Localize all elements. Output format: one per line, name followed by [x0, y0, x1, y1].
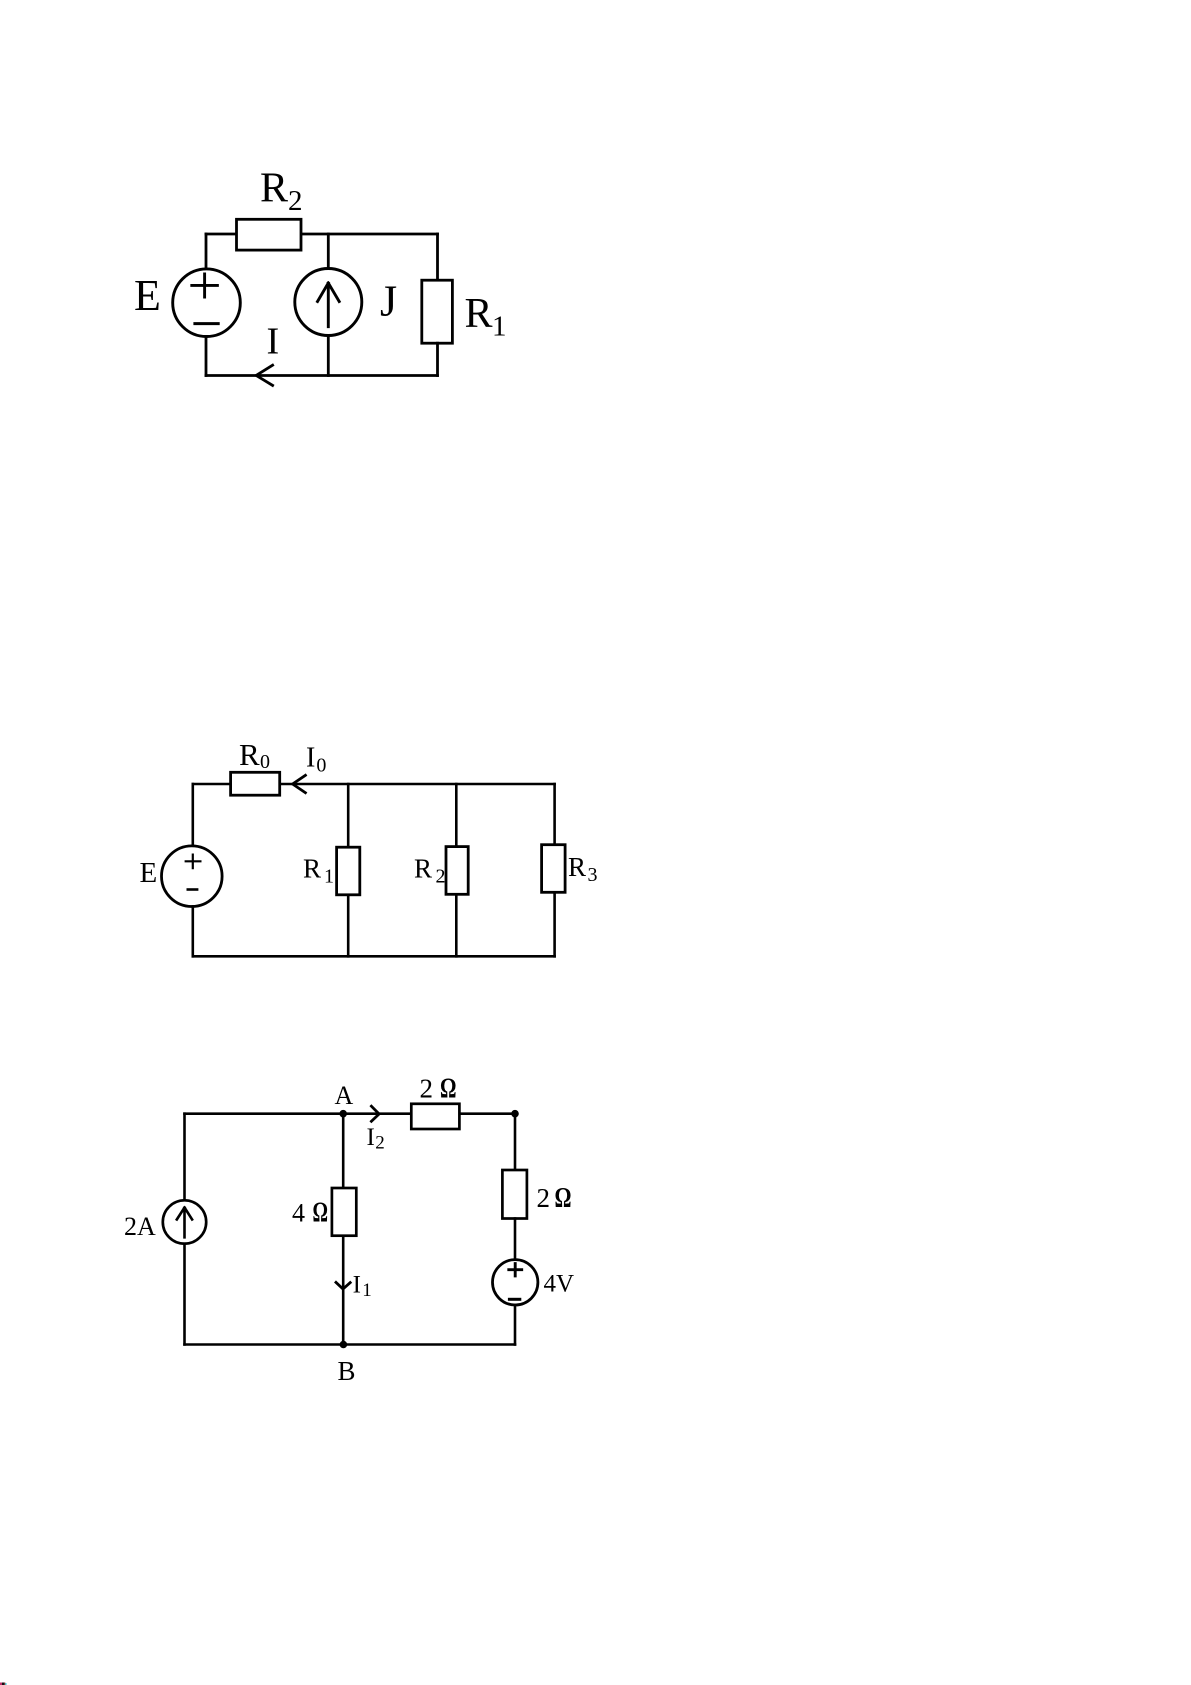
resistor R2	[237, 219, 302, 250]
corner artifact bottom-left	[0, 1683, 7, 1685]
svg-text:R: R	[303, 854, 321, 884]
wire: left vertical top	[192, 784, 195, 846]
wire: J branch bottom	[327, 336, 330, 376]
current source 2A (circle with up arrow)	[163, 1200, 206, 1243]
current arrow I on bottom wire	[256, 365, 272, 385]
svg-text:2: 2	[420, 1074, 434, 1104]
node right	[511, 1110, 519, 1118]
resistor R1	[422, 280, 453, 343]
svg-text:I: I	[367, 1124, 375, 1151]
current arrow I0 on top wire	[293, 775, 306, 792]
wire: bottom horizontal rail	[206, 374, 438, 377]
svg-text:3: 3	[588, 864, 598, 886]
svg-text:1: 1	[324, 866, 334, 888]
resistor 2 ohm right	[502, 1170, 527, 1219]
wire: R3 branch	[553, 784, 556, 956]
current arrow I1 on middle branch	[336, 1282, 350, 1289]
svg-text:1: 1	[362, 1280, 372, 1301]
wire: E bottom to bottom rail	[205, 337, 208, 376]
wire: right branch middle	[514, 1219, 517, 1260]
svg-text:B: B	[338, 1356, 356, 1386]
svg-text:4: 4	[292, 1198, 305, 1227]
resistor R2	[446, 847, 468, 895]
wire: right branch bottom	[514, 1305, 517, 1345]
svg-text:I: I	[267, 321, 280, 363]
wire: middle branch A to B	[342, 1114, 345, 1345]
svg-text:I: I	[306, 743, 315, 774]
resistor R1	[337, 847, 360, 895]
resistor 4 ohm	[332, 1188, 356, 1236]
svg-text:Ω: Ω	[440, 1072, 457, 1104]
wire: left vertical top	[183, 1114, 186, 1201]
svg-text:2: 2	[288, 185, 303, 217]
resistor 2 ohm top	[411, 1104, 459, 1129]
voltage source 4V (circle with + -)	[493, 1260, 538, 1305]
wire: top rail	[193, 783, 555, 786]
wire: left vertical bottom	[183, 1244, 186, 1345]
svg-text:0: 0	[316, 755, 326, 777]
svg-text:1: 1	[492, 311, 507, 343]
wire: J branch top	[327, 234, 330, 269]
svg-text:2: 2	[537, 1183, 551, 1213]
svg-text:2A: 2A	[124, 1212, 156, 1241]
svg-text:E: E	[140, 857, 158, 889]
svg-text:I: I	[353, 1271, 361, 1298]
svg-text:R: R	[568, 852, 586, 882]
svg-text:A: A	[335, 1081, 354, 1110]
svg-text:4V: 4V	[544, 1271, 575, 1298]
svg-text:J: J	[380, 277, 397, 326]
svg-text:E: E	[134, 271, 161, 320]
wire: top rail A to right node	[185, 1112, 516, 1115]
svg-text:R: R	[414, 854, 432, 884]
wire: R1 branch	[347, 784, 350, 956]
wire: R1 branch bottom	[436, 343, 439, 375]
svg-text:0: 0	[260, 751, 270, 773]
wire: R1 branch top	[436, 234, 439, 280]
node B	[340, 1341, 348, 1349]
svg-text:Ω: Ω	[555, 1183, 572, 1214]
resistor R0	[231, 772, 280, 795]
wire: bottom rail	[193, 955, 555, 958]
voltage source E (circle with + -)	[162, 846, 223, 907]
svg-text:2: 2	[375, 1133, 385, 1154]
resistor R3	[542, 845, 566, 893]
wire: left vertical from top wire to E source	[205, 234, 208, 269]
current arrow I2 on top wire	[371, 1106, 379, 1121]
wire: right branch top	[514, 1114, 517, 1170]
current source J (circle with up arrow)	[295, 269, 362, 336]
svg-text:R: R	[260, 166, 288, 212]
svg-text:R: R	[239, 737, 260, 772]
node A	[339, 1110, 347, 1118]
wire: R2 branch	[455, 784, 458, 956]
wire: top horizontal node between E, R2, J, R1	[206, 233, 438, 236]
svg-text:R: R	[465, 291, 493, 337]
svg-text:Ω: Ω	[313, 1198, 329, 1229]
wire: left vertical bottom	[192, 906, 195, 956]
wire: bottom rail	[185, 1343, 516, 1346]
svg-text:2: 2	[436, 866, 446, 888]
voltage source E (circle with + -)	[173, 269, 241, 337]
